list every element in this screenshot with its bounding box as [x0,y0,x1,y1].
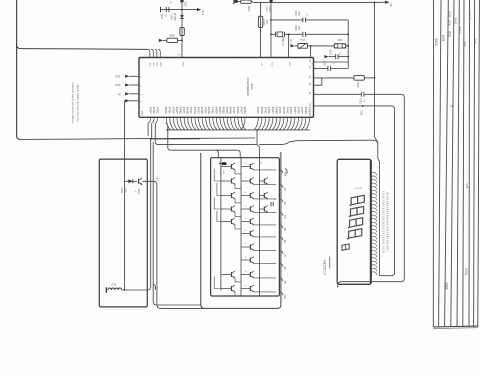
svg-text:D2: D2 [283,187,287,191]
svg-text:B18o8: B18o8 [194,106,197,114]
svg-text:COLON: COLON [354,188,362,190]
svg-text:D6: D6 [283,239,287,243]
svg-text:1a8o3: 1a8o3 [257,106,260,113]
svg-text:S/T2: S/T2 [115,83,121,87]
svg-text:8Bo88: 8Bo88 [305,106,308,114]
svg-text:VDD: VDD [183,61,185,66]
svg-text:3665: 3665 [445,282,449,289]
svg-text:B8e38: B8e38 [179,106,182,114]
svg-text:OSC1: OSC1 [267,5,269,12]
svg-text:YYVV: YYVV [299,39,306,42]
svg-text:301: 301 [473,38,477,43]
svg-text:#A06: #A06 [250,83,254,90]
svg-text:1a8o3: 1a8o3 [183,106,186,113]
svg-text:R810: R810 [357,81,360,87]
svg-text:8Bo88: 8Bo88 [283,106,286,114]
svg-text:they may vary with supply volt: they may vary with supply voltage [77,84,80,122]
svg-text:MSM5527RS: MSM5527RS [246,77,250,95]
svg-text:B8e38: B8e38 [297,106,300,114]
svg-text:D4: D4 [283,215,287,219]
svg-text:10M: 10M [267,20,269,25]
svg-text:9V: 9V [390,3,393,6]
svg-text:2: 2 [285,171,289,173]
svg-text:D851: D851 [122,187,124,193]
svg-text:8 1 8 8 1 8 8 1 8 8 1 8 8 1 8: 8 1 8 8 1 8 8 1 8 8 1 8 8 1 8 8 1 8 8 1 … [385,192,388,252]
svg-text:1a8o3: 1a8o3 [205,106,208,113]
svg-text:B8e38: B8e38 [222,106,225,114]
svg-text:512: 512 [448,31,452,37]
svg-text:D8: D8 [283,266,287,270]
svg-text:1a8o3: 1a8o3 [279,106,282,113]
svg-text:1955: 1955 [111,284,117,287]
svg-text:a18o8: a18o8 [272,106,275,113]
svg-text:18ae3: 18ae3 [233,106,236,113]
svg-text:R803: R803 [264,19,266,25]
svg-text:18ae3: 18ae3 [212,106,215,113]
svg-text:a18o8: a18o8 [197,106,200,113]
svg-text:BZA: BZA [448,11,452,17]
svg-text:TC: TC [312,62,314,65]
svg-text:D7: D7 [283,253,287,257]
svg-text:D801: D801 [172,14,174,20]
svg-text:+: + [333,62,335,66]
svg-text:B18o8: B18o8 [290,106,293,114]
svg-text:R802: R802 [248,5,251,11]
svg-text:4148: 4148 [125,187,127,193]
svg-text:8Bo88: 8Bo88 [230,106,233,114]
svg-text:B8e38: B8e38 [201,106,204,114]
svg-text:CT801: CT801 [291,38,293,45]
svg-text:8501A: 8501A [220,168,223,175]
svg-text:1 8 3 8 1 3 8 1 8 3 8 1 3 8 1: 1 8 3 8 1 3 8 1 8 3 8 1 3 8 1 8 3 8 1 3 … [382,191,385,253]
svg-text:18ae3: 18ae3 [308,106,311,113]
svg-text:C182: C182 [458,26,462,34]
svg-text:voltages shown are for line op: voltages shown are for line operation [72,82,75,123]
svg-text:a18o8: a18o8 [149,106,152,113]
svg-text:a18o8: a18o8 [294,106,297,113]
svg-text:+: + [170,1,172,5]
svg-text:21: 21 [450,104,454,108]
svg-text:8Bo88: 8Bo88 [208,106,211,114]
svg-text:22p: 22p [298,11,301,16]
svg-text:18ae3: 18ae3 [286,106,289,113]
svg-text:B18o8: B18o8 [237,106,240,114]
svg-text:18ae3: 18ae3 [190,106,193,113]
svg-text:FX05: FX05 [138,188,141,194]
svg-text:LT-5123H: LT-5123H [323,260,327,275]
svg-text:3900: 3900 [337,39,343,42]
svg-text:a18o8: a18o8 [240,106,243,113]
svg-text:BZZ: BZZ [448,20,452,26]
svg-text:25VF: 25VF [162,13,164,19]
svg-text:R811: R811 [361,109,364,115]
svg-text:18ae3: 18ae3 [169,106,172,113]
svg-text:8Bo88: 8Bo88 [165,106,168,114]
svg-text:1a8o3: 1a8o3 [157,106,160,113]
svg-text:1091: 1091 [441,34,445,41]
svg-text:22p: 22p [298,25,301,30]
svg-text:414: 414 [465,183,469,188]
svg-text:a18o8: a18o8 [176,106,179,113]
svg-text:8Bo88: 8Bo88 [187,106,190,114]
svg-text:B18o8: B18o8 [172,106,175,114]
svg-text:18ae3: 18ae3 [265,106,268,113]
svg-text:C806: C806 [331,49,333,55]
svg-text:a18o8: a18o8 [219,106,222,113]
svg-text:B18o8: B18o8 [268,106,271,114]
svg-text:8Bo88: 8Bo88 [261,106,264,114]
svg-text:1a8o3: 1a8o3 [301,106,304,113]
svg-text:S/T1: S/T1 [115,74,121,78]
svg-text:D5: D5 [283,227,287,231]
svg-text:D3: D3 [283,201,287,205]
svg-text:1a8o3: 1a8o3 [226,106,229,113]
svg-text:8108: 8108 [434,38,438,45]
svg-text:VSS: VSS [141,110,144,115]
svg-text:B8e38: B8e38 [244,106,247,114]
svg-text:981: 981 [463,41,467,46]
svg-text:C801: C801 [185,0,188,6]
svg-text:D/C: D/C [224,170,226,174]
svg-text:D10: D10 [283,294,287,299]
svg-text:7016: 7016 [465,268,469,275]
svg-text:4.19MHz: 4.19MHz [283,36,285,46]
svg-text:C807: C807 [325,60,327,66]
svg-text:1N4148: 1N4148 [175,12,177,21]
svg-text:1841: 1841 [453,17,457,24]
svg-text:D1: D1 [283,172,287,176]
svg-text:3906: 3906 [169,35,175,38]
svg-text:B18o8: B18o8 [215,106,218,114]
svg-text:B8e38: B8e38 [153,106,156,114]
svg-text:1.5V: 1.5V [201,10,205,16]
svg-text:1775: 1775 [468,12,472,19]
svg-text:B8e38: B8e38 [276,106,279,114]
svg-text:5D: 5D [155,177,159,180]
svg-text:D9: D9 [283,280,287,284]
